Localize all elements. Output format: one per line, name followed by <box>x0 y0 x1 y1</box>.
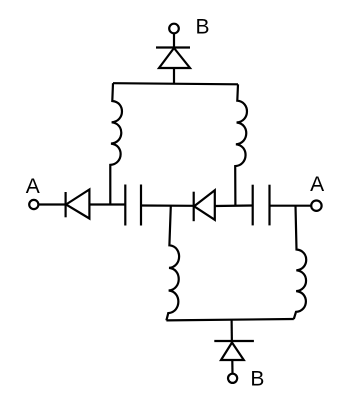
inductor L1 (top-left) <box>110 83 122 204</box>
svg-text:B: B <box>196 16 210 39</box>
svg-text:A: A <box>26 175 40 198</box>
wire top rail <box>113 83 238 84</box>
wire D3 to capacitor C2 (junction with L2) <box>215 204 253 207</box>
wire D1 to top rail <box>173 68 175 84</box>
capacitor C2 plate 1 <box>252 185 254 226</box>
diode D1 (top) cathode bar <box>156 46 190 48</box>
inductor L3 (bottom-left) <box>166 206 179 320</box>
wire terminal B to diode D1 <box>173 34 175 48</box>
wire C2 to terminal A right (junction with L4) <box>270 205 312 207</box>
capacitor C2 plate 2 <box>268 185 270 226</box>
diode D2 (left) cathode bar <box>64 192 66 217</box>
capacitor C1 plate 2 <box>140 185 142 226</box>
diode D4 (bottom) triangle <box>221 343 244 361</box>
diode D3 (middle) triangle <box>194 190 215 220</box>
wire rail to diode D4 <box>231 320 233 343</box>
capacitor C1 plate 1 <box>124 185 126 226</box>
inductor L4 (bottom-right) <box>294 206 306 319</box>
diode D3 (middle) cathode bar <box>193 192 195 222</box>
diode D2 (left) triangle <box>66 190 89 219</box>
svg-text:B: B <box>250 367 264 390</box>
wire terminal A to diode D2 <box>38 203 65 205</box>
terminal B (top) <box>169 24 179 34</box>
diode D4 (bottom) cathode bar <box>214 340 254 342</box>
inductor L2 (top-right) <box>235 84 247 205</box>
wire D4 to terminal B (bottom) <box>231 360 233 374</box>
svg-text:A: A <box>310 173 324 196</box>
terminal A (left) <box>29 200 38 209</box>
terminal A (right) <box>311 201 321 211</box>
wire C1 to diode D3 (junction with L3) <box>141 204 194 207</box>
wire bottom rail <box>166 319 293 320</box>
wire D2 to capacitor C1 (junction with L1) <box>89 203 125 205</box>
diode D1 (top) triangle <box>159 48 190 68</box>
terminal B (bottom) <box>228 374 237 383</box>
